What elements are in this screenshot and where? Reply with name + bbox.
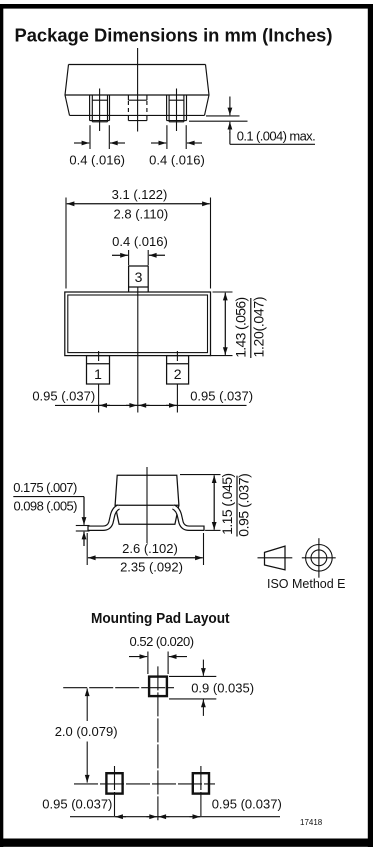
svg-text:2.0 (0.079): 2.0 (0.079) (55, 724, 118, 739)
svg-text:2: 2 (174, 366, 182, 382)
svg-text:3: 3 (135, 269, 143, 285)
svg-text:1: 1 (94, 366, 102, 382)
svg-text:2.8 (.110): 2.8 (.110) (114, 207, 169, 222)
svg-text:0.95 (0.037): 0.95 (0.037) (212, 797, 282, 812)
svg-text:0.4 (.016): 0.4 (.016) (112, 234, 168, 249)
svg-text:0.95 (.037): 0.95 (.037) (236, 473, 252, 537)
svg-text:1.43 (.056): 1.43 (.056) (232, 297, 248, 358)
svg-text:17418: 17418 (300, 818, 323, 827)
svg-text:0.175 (.007): 0.175 (.007) (13, 480, 77, 495)
svg-text:0.4 (.016): 0.4 (.016) (149, 153, 205, 168)
svg-text:2.35 (.092): 2.35 (.092) (120, 560, 183, 575)
svg-text:0.95 (.037): 0.95 (.037) (32, 388, 95, 403)
svg-text:0.098 (.005): 0.098 (.005) (14, 499, 78, 514)
svg-text:1.20(.047): 1.20(.047) (251, 297, 267, 358)
svg-text:Package Dimensions in mm (Inch: Package Dimensions in mm (Inches) (15, 26, 333, 46)
svg-text:2.6 (.102): 2.6 (.102) (122, 541, 178, 556)
svg-text:3.1 (.122): 3.1 (.122) (112, 187, 168, 202)
svg-text:0.52 (0.020): 0.52 (0.020) (130, 634, 195, 649)
svg-text:1.15 (.045): 1.15 (.045) (219, 473, 235, 535)
svg-text:ISO Method E: ISO Method E (267, 577, 346, 591)
svg-text:0.1 (.004) max.: 0.1 (.004) max. (237, 129, 316, 144)
svg-text:0.9 (0.035): 0.9 (0.035) (191, 681, 254, 696)
svg-text:0.95 (0.037): 0.95 (0.037) (42, 797, 112, 812)
svg-text:0.4 (.016): 0.4 (.016) (69, 153, 125, 168)
svg-text:0.95 (.037): 0.95 (.037) (190, 388, 253, 403)
svg-text:Mounting Pad Layout: Mounting Pad Layout (91, 611, 230, 627)
